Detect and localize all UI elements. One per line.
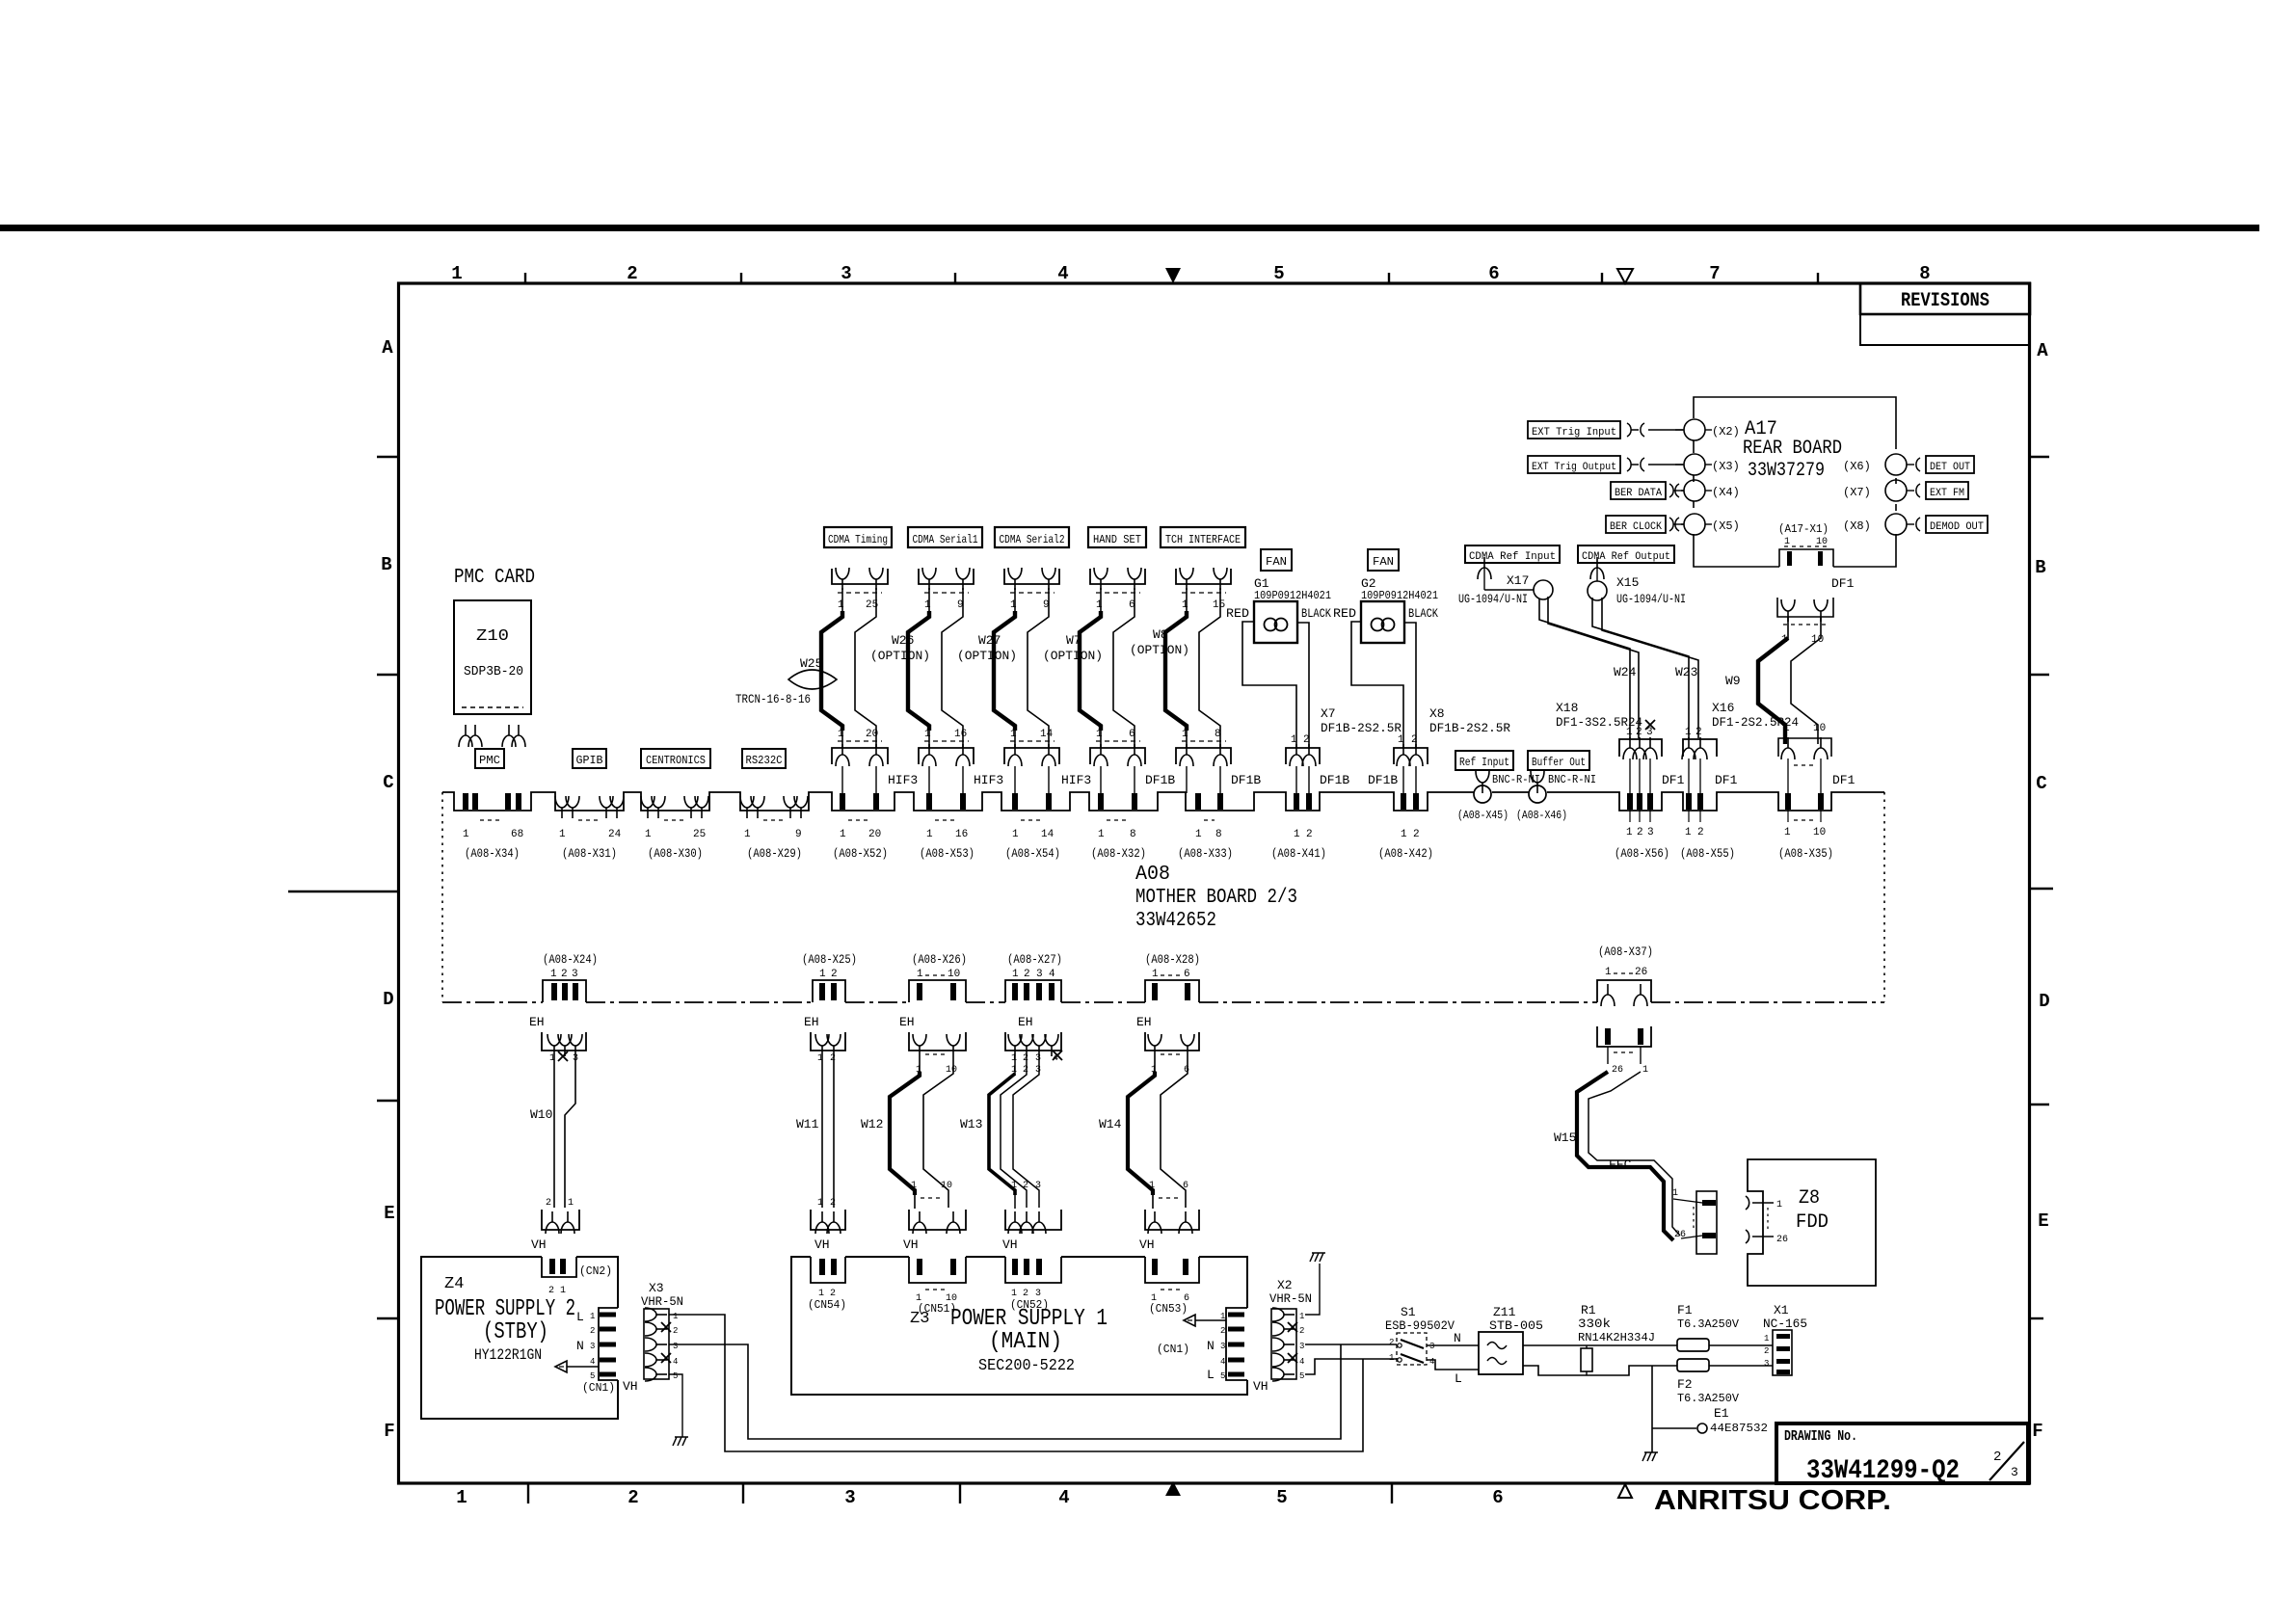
- cable W10: [530, 1056, 575, 1208]
- cable W15 FFC: [1554, 1072, 1680, 1240]
- BNC jack X8 rear: [1843, 514, 1920, 535]
- svg-text:VH: VH: [531, 1237, 547, 1252]
- connector CN52: [1005, 1257, 1061, 1312]
- svg-text:6: 6: [1183, 1181, 1188, 1191]
- svg-text:2: 2: [1389, 1338, 1394, 1347]
- svg-text:1: 1: [1195, 829, 1202, 840]
- board connector A08-X24: [543, 952, 598, 1000]
- board connector A08-X56: [1615, 793, 1669, 861]
- svg-text:FAN: FAN: [1373, 555, 1394, 569]
- svg-text:DF1-2S2.5R24: DF1-2S2.5R24: [1712, 715, 1799, 730]
- mating marks X5: [1669, 518, 1684, 531]
- svg-text:W15: W15: [1554, 1131, 1576, 1145]
- svg-text:(A08-X46): (A08-X46): [1516, 809, 1567, 822]
- svg-text:REAR BOARD: REAR BOARD: [1743, 438, 1842, 460]
- svg-text:HIF3: HIF3: [974, 773, 1003, 787]
- connector housing W13 top EH: [1005, 1032, 1062, 1064]
- svg-text:CDMA Ref Output: CDMA Ref Output: [1582, 551, 1670, 563]
- svg-text:X1: X1: [1774, 1303, 1789, 1317]
- label box DET OUT: [1926, 456, 1974, 473]
- connector housing W10 top EH: [542, 1032, 586, 1064]
- svg-text:1: 1: [1010, 729, 1017, 740]
- board connector A08-X25: [802, 952, 857, 1000]
- svg-text:F: F: [2032, 1421, 2042, 1442]
- svg-text:1: 1: [1764, 1334, 1769, 1344]
- svg-text:F1: F1: [1677, 1303, 1693, 1317]
- svg-text:10: 10: [941, 1181, 952, 1191]
- svg-text:POWER SUPPLY 2: POWER SUPPLY 2: [435, 1296, 575, 1322]
- svg-text:E1: E1: [1714, 1406, 1729, 1421]
- svg-text:1: 1: [1642, 1065, 1648, 1076]
- frame ground arrow Z4: [555, 1361, 599, 1372]
- svg-text:33W41299-Q2: 33W41299-Q2: [1806, 1456, 1960, 1486]
- label X8 DF1B-2S2.5R: [1429, 706, 1510, 735]
- svg-text:PMC: PMC: [479, 754, 500, 767]
- svg-text:(A08-X56): (A08-X56): [1615, 846, 1669, 861]
- Z3 box: [791, 1257, 1247, 1395]
- connector housing W27 top: [1004, 568, 1059, 611]
- svg-text:1: 1: [451, 263, 462, 284]
- cable W9: [1725, 617, 1821, 744]
- svg-text:1: 1: [838, 599, 844, 611]
- svg-text:TRCN-16-8-16: TRCN-16-8-16: [735, 692, 811, 706]
- Z10 connector forks: [459, 725, 525, 747]
- svg-text:2: 2: [1299, 1326, 1304, 1336]
- svg-text:W14: W14: [1099, 1117, 1122, 1131]
- svg-text:(OPTION): (OPTION): [1130, 643, 1189, 657]
- svg-text:NC-165: NC-165: [1763, 1317, 1807, 1331]
- svg-text:B: B: [381, 554, 391, 575]
- svg-text:(STBY): (STBY): [483, 1319, 548, 1345]
- svg-text:1: 1: [1685, 727, 1692, 738]
- svg-text:7: 7: [1709, 263, 1720, 284]
- svg-text:1: 1: [1784, 537, 1790, 547]
- label box Buffer Out: [1528, 751, 1589, 770]
- svg-text:N: N: [576, 1339, 584, 1353]
- svg-text:4: 4: [1299, 1357, 1304, 1367]
- board connector A08-X26: [912, 952, 967, 1000]
- svg-text:16: 16: [955, 829, 968, 840]
- svg-text:(CN1): (CN1): [582, 1381, 615, 1395]
- svg-text:VH: VH: [1002, 1237, 1018, 1252]
- board top edge with connector notches: [442, 792, 1884, 811]
- connector CN2: [542, 1257, 612, 1296]
- svg-text:2: 2: [1023, 1181, 1028, 1191]
- svg-text:X15: X15: [1616, 575, 1639, 590]
- board connector A08-X31: [555, 796, 624, 861]
- svg-text:1: 1: [1152, 969, 1159, 980]
- board connector A08-X29: [740, 796, 808, 861]
- svg-text:Ref Input: Ref Input: [1459, 756, 1509, 769]
- svg-text:4: 4: [1429, 1357, 1434, 1367]
- svg-text:(X4): (X4): [1712, 486, 1740, 499]
- svg-text:68: 68: [511, 829, 523, 840]
- svg-text:2: 2: [1220, 1326, 1225, 1336]
- svg-text:FAN: FAN: [1266, 555, 1287, 569]
- connector housing W26 bottom: [919, 729, 974, 793]
- bottom column numbers: [456, 1487, 1503, 1508]
- labels EH row: [529, 1015, 1152, 1029]
- svg-text:DF1B-2S2.5R: DF1B-2S2.5R: [1429, 721, 1510, 735]
- connector Z4 CN1: [576, 1308, 618, 1395]
- fuse F2 T6.3A250V: [1677, 1359, 1740, 1405]
- svg-text:W9: W9: [1725, 674, 1741, 688]
- svg-text:15: 15: [1213, 599, 1225, 611]
- svg-text:2: 2: [1993, 1450, 2001, 1465]
- mating marks X3: [1627, 458, 1683, 471]
- svg-text:2: 2: [548, 1286, 554, 1296]
- label box EXT FM: [1926, 482, 1968, 499]
- connector X1 NC-165: [1763, 1303, 1807, 1375]
- svg-text:(A08-X26): (A08-X26): [912, 952, 967, 967]
- connector X2 VHR-5N: [1253, 1278, 1312, 1394]
- svg-text:1: 1: [917, 969, 923, 980]
- label box BER CLOCK: [1606, 516, 1666, 533]
- label box EXT Trig Input: [1528, 421, 1620, 439]
- BNC receptacle A08-X46: [1516, 771, 1596, 822]
- svg-text:3: 3: [1764, 1359, 1769, 1369]
- svg-text:5: 5: [1276, 1487, 1287, 1508]
- ground above X2: [1305, 1253, 1325, 1315]
- connector CN54: [808, 1257, 846, 1312]
- connector housing W10 bottom VH: [542, 1198, 579, 1234]
- svg-text:L: L: [1207, 1368, 1215, 1382]
- svg-text:2: 2: [1637, 827, 1643, 838]
- board connector A08-X33: [1178, 793, 1233, 861]
- connector housing W27 bottom: [1004, 729, 1059, 793]
- label box PMC: [475, 749, 504, 768]
- svg-text:Z8: Z8: [1799, 1187, 1820, 1210]
- svg-text:1: 1: [1011, 1181, 1017, 1191]
- connector housing W25 top: [832, 568, 888, 611]
- svg-text:1: 1: [1401, 829, 1407, 840]
- svg-text:(A08-X53): (A08-X53): [920, 846, 974, 861]
- wire fan G2 black: [1404, 623, 1416, 749]
- board connector A08-X27: [1007, 952, 1062, 1000]
- svg-text:UG-1094/U-NI: UG-1094/U-NI: [1458, 592, 1528, 606]
- board left edge dotted: [441, 792, 443, 1002]
- cable eye TRCN-16-8-16: [788, 670, 837, 689]
- svg-text:X2: X2: [1277, 1278, 1293, 1292]
- labels DF1 row: [1662, 773, 1855, 787]
- svg-text:3: 3: [2011, 1465, 2018, 1479]
- ground under earth branch: [1642, 1452, 1658, 1461]
- svg-text:(A08-X54): (A08-X54): [1005, 846, 1060, 861]
- svg-text:1: 1: [1294, 829, 1300, 840]
- title block: [1776, 1423, 2028, 1486]
- BNC jack X7 rear: [1843, 480, 1920, 501]
- board connector A08-X54: [1005, 793, 1060, 861]
- svg-text:26: 26: [1612, 1065, 1623, 1076]
- svg-text:(A08-X37): (A08-X37): [1598, 945, 1653, 959]
- svg-text:(X6): (X6): [1843, 460, 1871, 473]
- svg-text:D: D: [2039, 991, 2049, 1012]
- svg-text:1: 1: [1626, 727, 1633, 738]
- svg-text:3: 3: [841, 263, 851, 284]
- svg-text:1: 1: [559, 829, 566, 840]
- board connector A08-X30: [641, 796, 708, 861]
- svg-text:10: 10: [1813, 723, 1826, 734]
- svg-text:5: 5: [590, 1371, 595, 1381]
- connector housing W8 top: [1176, 568, 1231, 611]
- drawing frame border: [399, 283, 2030, 1483]
- svg-text:DF1B: DF1B: [1231, 773, 1261, 787]
- svg-text:W13: W13: [960, 1117, 982, 1131]
- svg-text:2: 2: [1695, 727, 1702, 738]
- svg-text:3: 3: [1647, 827, 1654, 838]
- svg-text:5: 5: [1273, 263, 1284, 284]
- svg-text:HIF3: HIF3: [888, 773, 918, 787]
- svg-text:C: C: [2036, 773, 2046, 794]
- wire S1 to Z11 N: [1427, 1344, 1479, 1346]
- bottom fold marker hollow: [1618, 1484, 1632, 1498]
- svg-text:F2: F2: [1677, 1377, 1693, 1392]
- cable W25: [821, 588, 876, 748]
- board connector A08-X41: [1271, 793, 1326, 861]
- board connector A08-X52: [833, 793, 888, 861]
- BNC jack X3: [1675, 454, 1740, 475]
- connector housing W9 bottom: [1778, 723, 1831, 793]
- label box COMA Serial2: [995, 527, 1069, 547]
- svg-text:2: 2: [561, 969, 568, 980]
- Z4 name: [435, 1275, 575, 1364]
- svg-text:3: 3: [1429, 1342, 1434, 1351]
- svg-text:1: 1: [926, 829, 933, 840]
- connector housing W8 bottom: [1176, 729, 1231, 793]
- module Z10 SDP3B-20: [454, 600, 531, 714]
- wire X3 pin1 to mains rail B: [669, 1315, 1363, 1451]
- svg-text:4: 4: [673, 1357, 678, 1367]
- label box COMA Ref Output: [1578, 545, 1674, 563]
- svg-text:33W42652: 33W42652: [1135, 910, 1216, 932]
- connector A17-X1: [1778, 522, 1833, 567]
- svg-text:1: 1: [1605, 967, 1612, 978]
- svg-text:2: 2: [673, 1326, 678, 1336]
- svg-text:(A08-X34): (A08-X34): [465, 846, 520, 861]
- svg-text:20: 20: [868, 829, 881, 840]
- svg-text:1: 1: [911, 1181, 917, 1191]
- svg-text:3: 3: [673, 1342, 678, 1351]
- svg-text:(A08-X35): (A08-X35): [1778, 846, 1833, 861]
- connector W15-FFC end: [1672, 1188, 1717, 1254]
- svg-text:EH: EH: [1136, 1015, 1152, 1029]
- svg-text:Z10: Z10: [476, 627, 509, 646]
- svg-text:BLACK: BLACK: [1408, 606, 1438, 621]
- svg-text:(A08-X27): (A08-X27): [1007, 952, 1062, 967]
- svg-text:X16: X16: [1712, 701, 1734, 715]
- svg-text:1: 1: [1784, 827, 1791, 838]
- svg-text:BER CLOCK: BER CLOCK: [1610, 521, 1662, 533]
- svg-text:2: 2: [627, 1487, 638, 1508]
- svg-text:(MAIN): (MAIN): [989, 1329, 1062, 1355]
- svg-text:3: 3: [1035, 1065, 1041, 1076]
- svg-text:VH: VH: [623, 1379, 638, 1394]
- svg-text:(A08-X28): (A08-X28): [1145, 952, 1200, 967]
- svg-text:14: 14: [1040, 729, 1054, 740]
- connector X16: [1682, 727, 1717, 793]
- svg-text:PMC CARD: PMC CARD: [454, 567, 535, 589]
- label W26 (OPTION): [870, 633, 930, 663]
- BNC receptacle A08-X45: [1457, 771, 1540, 822]
- svg-text:1: 1: [1096, 599, 1103, 611]
- svg-text:10: 10: [1816, 537, 1828, 547]
- label box Ref Input: [1455, 751, 1513, 770]
- svg-text:(CN2): (CN2): [579, 1264, 612, 1278]
- wire fan G2 red: [1351, 622, 1403, 749]
- svg-text:(X3): (X3): [1712, 460, 1740, 473]
- svg-text:2: 2: [1636, 727, 1642, 738]
- svg-text:3: 3: [1220, 1342, 1225, 1351]
- svg-text:4: 4: [1053, 1053, 1058, 1064]
- svg-text:2: 2: [1306, 829, 1313, 840]
- svg-text:(OPTION): (OPTION): [1043, 649, 1103, 663]
- svg-text:1: 1: [568, 1198, 574, 1209]
- wire Z11 to X1 N rail: [1523, 1344, 1773, 1346]
- svg-text:DF1B-2S2.5R: DF1B-2S2.5R: [1321, 721, 1402, 735]
- svg-text:1: 1: [1096, 729, 1103, 740]
- svg-text:SDP3B-20: SDP3B-20: [464, 664, 523, 679]
- label box BER DATA: [1611, 482, 1666, 499]
- svg-text:26: 26: [1635, 967, 1647, 978]
- labels VH row: [531, 1237, 1155, 1252]
- line filter Z11 STB-005: [1479, 1305, 1543, 1374]
- Z3 name: [910, 1306, 1108, 1375]
- svg-text:1: 1: [744, 829, 751, 840]
- svg-text:6: 6: [1129, 729, 1135, 740]
- svg-text:GPIB: GPIB: [576, 754, 603, 767]
- svg-text:VHR-5N: VHR-5N: [641, 1294, 683, 1309]
- svg-text:(A08-X55): (A08-X55): [1680, 846, 1735, 861]
- svg-text:A: A: [382, 337, 393, 359]
- svg-text:FFC: FFC: [1609, 1157, 1632, 1172]
- resistor R1 330k RN14K2H334J: [1578, 1303, 1655, 1375]
- svg-text:(CN1): (CN1): [1157, 1343, 1189, 1356]
- connector housing W11 bottom VH: [811, 1198, 845, 1234]
- svg-text:44E87532: 44E87532: [1710, 1422, 1768, 1435]
- BNC plug X17 UG-1094/U-NI: [1458, 557, 1553, 606]
- svg-text:1: 1: [645, 829, 652, 840]
- svg-text:3: 3: [590, 1342, 595, 1351]
- svg-text:1: 1: [1389, 1353, 1394, 1363]
- svg-text:DET OUT: DET OUT: [1930, 462, 1970, 473]
- svg-text:E: E: [384, 1203, 394, 1224]
- svg-text:DF1B: DF1B: [1320, 773, 1349, 787]
- board connector A08-X37: [1598, 945, 1653, 1006]
- labels HIF3 / DF1B row: [888, 773, 1398, 787]
- svg-text:(A08-X24): (A08-X24): [543, 952, 598, 967]
- label box RS232C: [742, 749, 786, 768]
- wire fan G1 red: [1242, 622, 1296, 749]
- label W27 (OPTION): [957, 633, 1017, 663]
- BNC jack X5: [1676, 514, 1740, 535]
- svg-text:1: 1: [1012, 829, 1019, 840]
- svg-text:4: 4: [1049, 969, 1055, 980]
- svg-text:DF1: DF1: [1662, 773, 1685, 787]
- wire fan G1 black: [1297, 623, 1309, 749]
- svg-text:X7: X7: [1321, 706, 1336, 721]
- svg-text:TCH INTERFACE: TCH INTERFACE: [1165, 533, 1241, 546]
- svg-text:26: 26: [1776, 1235, 1788, 1245]
- svg-text:(A08-X32): (A08-X32): [1091, 846, 1146, 861]
- svg-text:(A08-X33): (A08-X33): [1178, 846, 1233, 861]
- label box FAN 1: [1261, 549, 1292, 571]
- connector X3 VHR-5N: [623, 1281, 683, 1394]
- svg-text:HY122R1GN: HY122R1GN: [474, 1346, 542, 1364]
- connector X7: [1286, 734, 1320, 793]
- left edge row ticks: [377, 457, 399, 1318]
- wire X2 pin3 to S1: [1305, 1344, 1397, 1345]
- svg-text:8: 8: [1130, 829, 1136, 840]
- svg-text:Z11: Z11: [1493, 1305, 1516, 1319]
- svg-text:1: 1: [1149, 1181, 1155, 1191]
- svg-text:10: 10: [946, 1065, 957, 1076]
- svg-text:6: 6: [1492, 1487, 1503, 1508]
- svg-text:VH: VH: [1139, 1237, 1155, 1252]
- svg-text:X17: X17: [1507, 573, 1529, 588]
- fan G2 109P0912H4021: [1333, 576, 1438, 643]
- svg-text:(A08-X52): (A08-X52): [833, 846, 888, 861]
- svg-text:6: 6: [1488, 263, 1499, 284]
- Z4 box: [421, 1257, 618, 1419]
- earth branch wire: [1651, 1366, 1653, 1452]
- svg-text:T6.3A250V: T6.3A250V: [1677, 1317, 1740, 1331]
- svg-text:UG-1094/U-NI: UG-1094/U-NI: [1616, 592, 1686, 606]
- svg-text:L: L: [576, 1310, 584, 1324]
- svg-text:(A08-X42): (A08-X42): [1378, 846, 1433, 861]
- connector housing W11 top EH: [811, 1032, 845, 1064]
- cable W7: [1080, 588, 1135, 748]
- svg-text:3: 3: [1036, 969, 1043, 980]
- svg-text:X18: X18: [1556, 701, 1578, 715]
- svg-text:2: 2: [627, 263, 637, 284]
- svg-text:1: 1: [924, 729, 931, 740]
- svg-text:RED: RED: [1226, 606, 1249, 621]
- svg-text:1: 1: [1626, 827, 1633, 838]
- svg-text:C: C: [383, 772, 393, 793]
- svg-text:2: 2: [831, 969, 838, 980]
- svg-text:A08: A08: [1135, 864, 1170, 886]
- cable W13: [960, 1056, 1041, 1209]
- svg-text:1: 1: [673, 1312, 678, 1321]
- svg-text:CDMA Serial2: CDMA Serial2: [1000, 533, 1065, 546]
- svg-text:1: 1: [1685, 827, 1692, 838]
- bottom fold marker filled: [1165, 1481, 1181, 1496]
- svg-text:14: 14: [1041, 829, 1055, 840]
- svg-text:(CN54): (CN54): [808, 1298, 846, 1312]
- svg-text:BLACK: BLACK: [1301, 606, 1331, 621]
- svg-text:DRAWING No.: DRAWING No.: [1784, 1428, 1857, 1445]
- svg-text:2: 2: [830, 1198, 836, 1209]
- svg-text:2: 2: [830, 1053, 836, 1064]
- svg-text:DF1: DF1: [1715, 773, 1738, 787]
- svg-text:CDMA Ref Input: CDMA Ref Input: [1469, 551, 1556, 563]
- svg-text:10: 10: [948, 969, 960, 980]
- svg-text:EH: EH: [804, 1015, 819, 1029]
- connector housing W13 bottom VH: [1005, 1181, 1061, 1234]
- connector housing W7 top: [1090, 568, 1145, 611]
- svg-text:3: 3: [1035, 1053, 1041, 1064]
- svg-text:(A08-X30): (A08-X30): [648, 846, 703, 861]
- wire S1 to Z11 L: [1427, 1360, 1479, 1370]
- board connector A08-X42: [1378, 793, 1433, 861]
- top edge column ticks: [525, 273, 1818, 284]
- svg-text:1: 1: [819, 969, 826, 980]
- connector housing W14 top EH: [1145, 1032, 1199, 1076]
- svg-text:VH: VH: [903, 1237, 919, 1252]
- svg-text:1: 1: [1012, 969, 1019, 980]
- svg-text:X3: X3: [649, 1281, 664, 1295]
- svg-text:Z3: Z3: [910, 1310, 929, 1328]
